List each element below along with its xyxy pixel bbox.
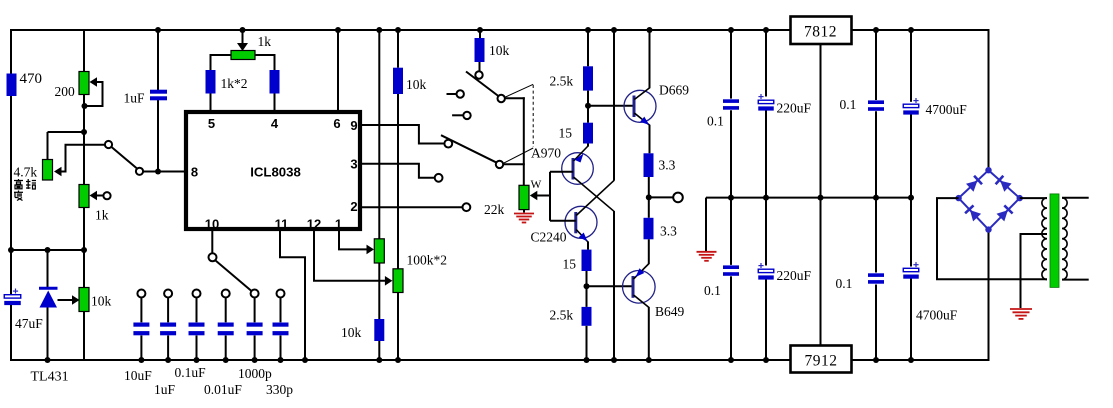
range capacitor C6 [280, 298, 282, 323]
svg-text:1uF: 1uF [124, 91, 146, 106]
junction dot ground rail x820 [818, 195, 824, 201]
potentiometer 100k*2 upper [374, 239, 384, 263]
voltage regulator 7912 [791, 346, 852, 373]
junction dot 200 wiper [82, 103, 88, 109]
wire D669 collector to rail [649, 29, 651, 88]
potentiometer 1k (x84) [79, 185, 89, 208]
junction dot cap C3 bottom [194, 357, 200, 363]
transformer primary winding [1062, 198, 1067, 280]
range capacitor C1 terminal circle [137, 290, 145, 298]
junction dot output node [646, 194, 652, 200]
wire pin 12 to lower 100k pot wiper [314, 229, 387, 281]
wire B649 base [587, 285, 633, 287]
svg-text:22k: 22k [484, 202, 505, 217]
capacitor 0.1 upper-right [868, 100, 884, 104]
junction dot top rail x731 [728, 27, 734, 33]
wire top +12V rail left segment [11, 29, 791, 31]
gang link dashed line [532, 85, 534, 147]
terminal circle 1k wiper [103, 192, 110, 199]
diode D1 (left to top) [966, 181, 977, 192]
junction dot ground rail x731 [728, 195, 734, 201]
wire pin 3 out [360, 164, 434, 178]
wire x84 vertical (reference divider) [83, 29, 85, 361]
switch S3 contact (from pin 9) [444, 140, 452, 148]
capacitor 220uF upper [758, 96, 763, 98]
svg-text:10uF: 10uF [124, 368, 152, 383]
wiper arrow of 1k pot [90, 191, 98, 201]
junction dot top rail x338 [335, 27, 341, 33]
range capacitor C3 [196, 298, 198, 323]
junction dot cap C4 bottom [223, 357, 229, 363]
svg-text:7812: 7812 [804, 24, 837, 41]
junction dot ground rail x766 [763, 195, 769, 201]
wire x158 vertical with 1uF [157, 29, 159, 90]
resistor 1k*2 left [206, 70, 216, 94]
wire left edge vertical [10, 29, 12, 295]
wire top rail right segment (7812 input) [852, 29, 989, 31]
svg-text:1uF: 1uF [154, 382, 176, 397]
wire D669 emitter to 3.3 [649, 125, 651, 153]
range switch common circle [209, 253, 217, 261]
range capacitor C5 terminal circle [251, 290, 259, 298]
switch S2 contact top [475, 71, 482, 78]
wire 4.7k pot branch vertical [47, 132, 49, 160]
wire pin4 to 1k*2 right [255, 55, 275, 110]
wire mid ground rail [706, 197, 912, 199]
junction dot cap C1 bottom [138, 357, 144, 363]
wire x398 vertical upper [397, 29, 399, 68]
svg-text:220uF: 220uF [777, 101, 812, 116]
junction dot at (84,132) [81, 129, 87, 135]
svg-text:D669: D669 [659, 83, 689, 98]
svg-text:10k: 10k [341, 325, 362, 340]
wire TL431 ref to 10k wiper [58, 299, 73, 301]
wire output node to terminal [649, 196, 673, 198]
svg-text:2.5k: 2.5k [550, 74, 574, 89]
svg-text:7912: 7912 [805, 353, 838, 370]
wire x614 lower segment [613, 211, 615, 360]
svg-text:15: 15 [559, 126, 573, 141]
switch S1 contact (left) [105, 141, 112, 148]
range capacitor C5 [254, 298, 256, 323]
svg-text:2: 2 [350, 199, 357, 214]
junction dot top rail x649 [647, 27, 653, 33]
range capacitor C4 terminal circle [222, 290, 230, 298]
wire ground rail left drop [705, 198, 707, 251]
junction dot top rail x398 [395, 27, 401, 33]
switch S1 blade [112, 147, 138, 169]
resistor 15 lower [582, 250, 592, 271]
capacitor 0.1 upper-left [723, 99, 739, 103]
wire TL431 branch vertical [47, 250, 49, 287]
wire bottom rail right segment (7912 input) [852, 359, 989, 361]
switch S1 common [136, 168, 143, 175]
voltage regulator 7812 [791, 17, 852, 45]
wire 15 to A970 emitter [587, 144, 589, 147]
svg-text:0.01uF: 0.01uF [204, 382, 242, 397]
svg-text:2.5k: 2.5k [550, 308, 574, 323]
wire C2240 emitter to 15 lower [587, 242, 589, 250]
switch S3 pivot [496, 161, 503, 168]
resistor 3.3 upper [644, 153, 654, 177]
svg-text:1k*2: 1k*2 [221, 76, 248, 91]
junction dot (586,360) [584, 357, 590, 363]
resistor 2.5k upper [583, 66, 593, 90]
wire unregulated - input vertical from bridge [988, 230, 990, 362]
svg-text:100k*2: 100k*2 [407, 253, 448, 268]
wire x911 vertical [910, 29, 912, 102]
wire pin 2 out [360, 206, 462, 208]
junction dot (305,360) [302, 357, 308, 363]
diode D2 (right to top) [1000, 181, 1011, 192]
wire 1k*2 left lower lead [210, 94, 212, 111]
wire primary bottom lead [1062, 279, 1089, 281]
wire x588 from rail to 2.5k [587, 29, 589, 66]
wire B649 collector to bottom rail [648, 307, 650, 360]
wire left edge vertical below 47uF [10, 303, 12, 361]
junction dot ground rail x876 [873, 195, 879, 201]
capacitor 0.1 lower-right [868, 273, 884, 277]
bridge rectifier diamond [959, 170, 989, 198]
svg-text:1k: 1k [258, 34, 272, 49]
wire x876 vertical [875, 29, 877, 100]
wire pin 1 to upper 100k pot wiper [339, 229, 369, 249]
svg-text:C2240: C2240 [531, 230, 567, 245]
op-amp chip ICL8038 body [186, 112, 360, 229]
svg-text:200: 200 [55, 84, 76, 99]
wiper arrow of 4.7k pot [54, 167, 62, 177]
wire 1k wiper stub [97, 195, 104, 197]
capacitor 1uF timing [150, 90, 167, 94]
resistor 2.5k lower [582, 307, 592, 326]
svg-text:B649: B649 [655, 304, 685, 319]
wire pin 9 out [360, 125, 444, 144]
svg-text:0.1: 0.1 [707, 114, 724, 129]
ground (main analog ground) [697, 251, 717, 253]
junction dot (649,360) [646, 357, 652, 363]
diode D3 (bottom to left) [970, 210, 981, 221]
wire horizontal y250 (TL431 cathode node) [11, 249, 84, 251]
unused contact circle B [463, 112, 470, 119]
range capacitor C4 [225, 298, 227, 323]
junction dot top rail x614 [611, 27, 617, 33]
wiper arrow into upper 100k pot [367, 245, 375, 255]
junction dot top rail x911 [908, 27, 914, 33]
junction dot cap C6 bottom [278, 357, 284, 363]
potentiometer 10k (feedback) [79, 288, 89, 312]
capacitor 4700uF upper [913, 100, 918, 102]
unused contact circle A [457, 90, 464, 97]
junction dot bottom rail x876 [873, 357, 879, 363]
svg-text:11: 11 [275, 217, 289, 232]
wire unregulated + input vertical to bridge [988, 29, 990, 171]
wire bridge left corner to secondary bottom [937, 198, 1047, 279]
potentiometer 1k horizontal (duty) [231, 51, 255, 60]
wire bridge right corner to secondary top [1020, 197, 1047, 199]
svg-text:10k: 10k [406, 77, 427, 92]
junction dot cap C2 bottom [165, 357, 171, 363]
resistor 15 upper [583, 123, 593, 144]
svg-text:470: 470 [20, 71, 43, 87]
range capacitor C2 [167, 298, 169, 323]
junction dot top rail x379 [376, 27, 382, 33]
potentiometer 200 [79, 72, 89, 95]
wire regulators common ground pin [820, 44, 822, 346]
resistor 10k (x480) [475, 38, 485, 62]
wire x398 vertical middle [397, 94, 399, 269]
wire S2 output [505, 97, 525, 99]
junction dot top rail x766 [763, 27, 769, 33]
wiper arrow of 200 pot [90, 77, 98, 87]
wire pin 11 to bottom rail [280, 229, 305, 360]
range switch blade to 1000p [216, 261, 252, 292]
ground (transformer center tap) [1010, 308, 1032, 310]
junction dot pin-8 node [155, 169, 161, 175]
wire 10k to contact [479, 62, 481, 71]
junction dot top rail x876 [873, 27, 879, 33]
wire switch output vertical to 22k pot [523, 97, 525, 185]
resistor 1k*2 right [270, 70, 280, 94]
junction dot ground rail x911 [908, 195, 914, 201]
svg-text:3: 3 [350, 157, 357, 172]
svg-text:15: 15 [563, 257, 577, 272]
wiper arrow into 22k pot [530, 191, 538, 201]
resistor 10k (x398) [393, 68, 403, 94]
switch S2 pivot [498, 95, 505, 102]
terminal circle pin 3 [435, 174, 443, 182]
resistor 10k (x379) [374, 319, 384, 341]
unused contact stub A [447, 93, 457, 95]
junction dot top rail x480 [477, 27, 483, 33]
capacitor 220uF lower [758, 265, 763, 267]
wire secondary center tap [1021, 234, 1048, 308]
wire 10k to bottom rail [378, 341, 380, 360]
range capacitor C3 terminal circle [193, 290, 201, 298]
label gao jing du (high precision) drawn glyphs [14, 179, 23, 189]
junction dot cap C5 bottom [252, 357, 258, 363]
junction dot (398,360) [395, 357, 401, 363]
junction dot top rail x242 [240, 27, 246, 33]
wire x731 vertical [730, 29, 732, 99]
switch S2 blade [466, 72, 499, 97]
junction dot bottom rail x731 [728, 357, 734, 363]
wire D669 base [588, 105, 634, 107]
wire 200 pot wiper loop [85, 82, 103, 106]
junction dot top rail x158 [155, 27, 161, 33]
svg-text:8: 8 [191, 165, 198, 180]
svg-text:4700uF: 4700uF [926, 102, 968, 117]
wire 2.5k to bottom rail [586, 326, 588, 360]
junction dot D669 base node [585, 103, 591, 109]
svg-text:330p: 330p [266, 382, 293, 397]
wire x766 vertical [765, 29, 767, 97]
wire 22k wiper to driver bases [537, 195, 550, 197]
wire 4.7k wiper to switch contact [62, 145, 105, 172]
junction dot bottom rail x766 [763, 357, 769, 363]
transistor C2240 (NPN) [565, 206, 597, 238]
transistor D669 (NPN) [624, 90, 656, 122]
gang link thin line lower [503, 148, 533, 164]
svg-text:1000p: 1000p [238, 366, 272, 381]
potentiometer 100k*2 lower [393, 269, 403, 293]
range capacitor C1 [140, 298, 142, 323]
svg-text:TL431: TL431 [31, 370, 69, 385]
svg-text:4700uF: 4700uF [916, 308, 958, 323]
junction dot (614,360) [611, 357, 617, 363]
wire pin 10 down to range switch [211, 229, 213, 253]
wire bottom -12V rail left segment [10, 359, 790, 361]
wire 4.7k top connection [48, 131, 85, 133]
diode D4 (bottom to right) [997, 210, 1008, 221]
unused contact stub B [452, 114, 463, 116]
svg-text:0.1: 0.1 [836, 276, 853, 291]
svg-text:9: 9 [350, 118, 357, 133]
junction dot TL431 bottom rail [45, 357, 51, 363]
svg-text:0.1: 0.1 [840, 97, 857, 112]
svg-text:5: 5 [208, 116, 215, 131]
wire primary top lead [1062, 197, 1089, 199]
svg-text:W: W [531, 179, 542, 191]
svg-text:ICL8038: ICL8038 [250, 165, 301, 180]
svg-text:220uF: 220uF [777, 268, 812, 283]
wiper arrow into 10k pot [72, 295, 80, 305]
transistor B649 (PNP) [623, 271, 656, 304]
junction dot (47,250) [45, 247, 51, 253]
svg-text:10k: 10k [91, 294, 112, 309]
wire pin5 to 1k*2 left [211, 55, 232, 110]
junction dot top rail x588 [585, 27, 591, 33]
svg-text:47uF: 47uF [15, 316, 43, 331]
wiper arrow into lower 100k pot [385, 276, 393, 286]
resistor 3.3 lower [644, 218, 654, 240]
svg-text:6: 6 [333, 116, 340, 131]
svg-text:0.1uF: 0.1uF [175, 365, 207, 380]
wire x480 from top rail [479, 29, 481, 38]
capacitor 47uF [13, 290, 18, 292]
wire 22k pot to ground [523, 210, 525, 213]
junction dot B649 base node [584, 283, 590, 289]
gang link thin line upper [506, 84, 534, 97]
wire between pot and 10k [378, 263, 380, 319]
transistor A970 (PNP) [562, 153, 594, 185]
svg-text:3.3: 3.3 [659, 158, 676, 173]
svg-text:10k: 10k [489, 43, 510, 58]
wire pin 6 to top rail [337, 29, 339, 112]
range capacitor C6 terminal circle [277, 290, 285, 298]
junction dot (84,250) [81, 247, 87, 253]
wire 1k*2 right lower lead [274, 94, 276, 111]
wire 2.5k to 15 [587, 91, 589, 123]
wire base tie vertical [549, 172, 551, 221]
resistor 470 [7, 74, 17, 97]
terminal circle pin 2 [463, 203, 471, 211]
terminal circle output [673, 193, 683, 203]
svg-text:4: 4 [271, 116, 279, 131]
switch S3 blade [441, 135, 497, 163]
potentiometer 4.7k high-precision [43, 160, 53, 181]
potentiometer 22k amplitude [519, 185, 529, 209]
wiper arrow down from top rail [242, 29, 244, 44]
TL431 shunt regulator [39, 287, 58, 290]
svg-text:3.3: 3.3 [660, 224, 677, 239]
ground (22k pot) [514, 213, 534, 215]
junction dot (379,360) [376, 357, 382, 363]
junction dot (11,250) [8, 247, 14, 253]
capacitor 4700uF lower [913, 264, 918, 266]
junction dot bottom rail x911 [908, 357, 914, 363]
wire 15 to 2.5k lower [586, 271, 588, 307]
svg-text:A970: A970 [531, 146, 561, 161]
wire 3.3 to output node [648, 177, 650, 218]
transformer core [1050, 194, 1059, 288]
wire x379 vertical [378, 29, 380, 239]
wire 3.3 to B649 emitter [648, 239, 650, 264]
wire switch common to pin 8 [143, 171, 185, 173]
transformer secondary winding [1042, 198, 1047, 280]
svg-text:4.7k: 4.7k [14, 165, 38, 180]
range capacitor C2 terminal circle [164, 290, 172, 298]
wire x398 to bottom rail [397, 293, 399, 361]
svg-text:0.1: 0.1 [704, 283, 721, 298]
svg-text:1k: 1k [95, 208, 109, 223]
capacitor 0.1 lower-left [723, 265, 739, 269]
wire S3 output [503, 163, 525, 165]
wire x614 upper segment [613, 29, 615, 181]
